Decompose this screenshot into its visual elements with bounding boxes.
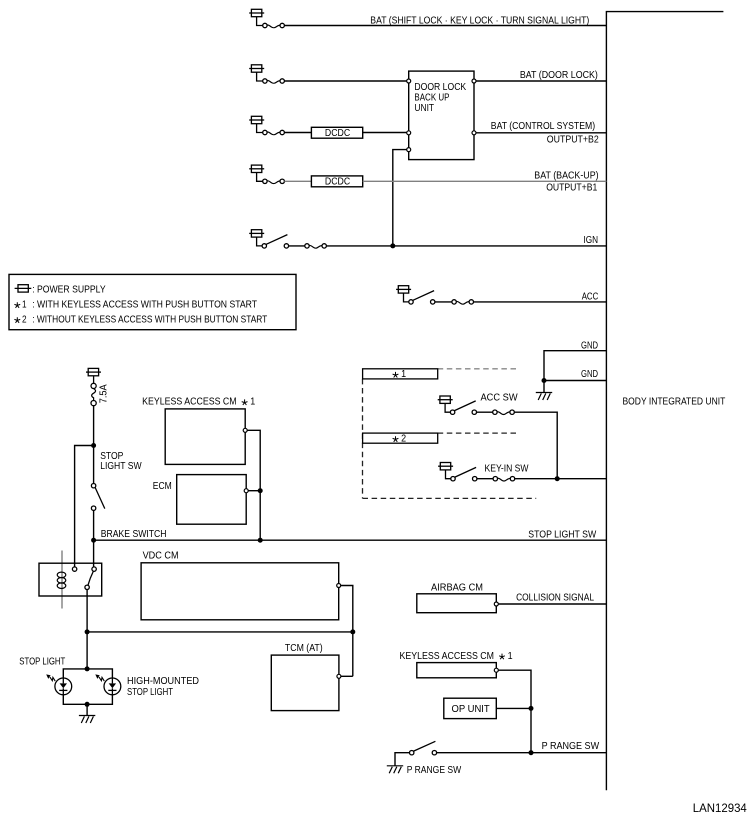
ACC switch contacts [409,300,474,304]
relay blade [88,571,93,585]
switch SW1 contacts [263,23,285,27]
svg-text:OP UNIT: OP UNIT [452,704,490,715]
stop light relay box [39,563,102,596]
switch SW3 contacts [263,130,285,134]
keyless access CM box (left) [165,409,245,465]
ACC SW wave [497,412,510,415]
svg-text:AIRBAG CM: AIRBAG CM [431,582,483,593]
wire to lamp ground [86,704,88,715]
power supply PS6 (ACC row) [396,286,411,302]
body integrated unit bus line [606,12,723,791]
junction relay-VDC row [85,629,90,634]
wire row3 switch to DCDC [284,132,311,134]
wire ECM pin to column [248,490,260,492]
svg-text:IGN: IGN [584,234,599,246]
svg-text:ACC: ACC [582,291,599,303]
switch SW2 wave [267,80,280,83]
legend box [9,274,296,329]
junction P range column [529,750,534,755]
relay contacts [72,567,96,590]
svg-text:: WITH KEYLESS ACCESS WITH PUS: : WITH KEYLESS ACCESS WITH PUSH BUTTON S… [32,299,257,311]
wire IGN middle [289,245,305,247]
airbag pin [494,602,498,606]
ground symbol G1 [536,393,552,401]
svg-text:7.5A: 7.5A [99,384,110,403]
legend star 1 [14,302,20,308]
ACC SW contacts [450,410,514,414]
junction IGN feed [390,243,395,248]
svg-text:HIGH-MOUNTED: HIGH-MOUNTED [127,676,199,687]
wire KEY-IN to bus [515,478,607,480]
switch IGN wave [309,245,322,248]
KEY-IN SW blade [455,467,476,477]
svg-text:2: 2 [401,434,406,445]
svg-text:KEYLESS ACCESS CM: KEYLESS ACCESS CM [142,397,237,408]
unit terminal pins [407,79,476,152]
dashed enclosure *2 top [438,432,519,434]
keyless CM pin [243,428,247,432]
tag box *2 [363,433,438,443]
star in tag 2 [393,436,399,442]
junction GND [542,378,547,383]
svg-text:1: 1 [22,299,27,311]
wire TCM pin to column [341,675,353,677]
ignition switch blade [266,235,287,245]
dashed enclosure *1 top [438,368,518,370]
svg-text:BAT (CONTROL SYSTEM): BAT (CONTROL SYSTEM) [491,120,595,132]
ECM box [177,475,247,525]
junction brake row left [91,538,96,543]
wire switch to brake row [93,510,95,569]
wire GND1 to bus [544,351,606,393]
wire keyless pin to ECM column [247,430,260,540]
junction key-in ACC column [555,476,560,481]
keyless access CM box (bottom) [417,663,497,678]
VDC CM box [141,563,339,620]
ground symbol G3 (P range) [387,766,403,774]
ACC SW blade [455,401,476,411]
DCDC converter box 2 [311,176,362,187]
svg-text:ACC SW: ACC SW [481,393,519,404]
svg-text:OUTPUT+B1: OUTPUT+B1 [546,181,597,193]
svg-text:KEY-IN SW: KEY-IN SW [485,464,529,475]
DCDC converter box 1 [311,127,362,138]
VDC pin [337,584,341,588]
switch SW2 contacts [263,79,285,83]
svg-text:STOP LIGHT SW: STOP LIGHT SW [528,528,596,540]
relay coil gray wire [61,551,63,609]
svg-text:STOP LIGHT: STOP LIGHT [127,687,173,698]
wire brake switch row to bus [94,539,607,541]
wire ACC middle [435,301,452,303]
P range switch contacts [410,751,437,755]
fuse F1 7.5A [91,383,96,405]
wire row2 left of unit [284,80,406,82]
svg-text:2: 2 [22,314,27,326]
P range switch ground lead [395,753,412,766]
legend power supply icon [15,285,32,292]
svg-text:1: 1 [401,369,406,380]
svg-text:ECM: ECM [153,481,172,492]
door lock back up unit text [414,82,466,114]
wire KEY-IN middle [477,478,493,480]
svg-text:BAT (SHIFT LOCK · KEY LOCK · T: BAT (SHIFT LOCK · KEY LOCK · TURN SIGNAL… [370,14,589,26]
wire row2 right of unit to bus [476,80,607,82]
wire branch left to relay contact [75,446,94,567]
dashed enclosure bottom [363,497,537,499]
svg-text:LAN12934: LAN12934 [693,803,748,815]
svg-text:GND: GND [581,368,598,380]
svg-text:TCM (AT): TCM (AT) [285,643,323,654]
relay coil [57,572,66,588]
svg-text:P RANGE SW: P RANGE SW [407,765,462,776]
wire keyless to P range column [498,670,531,753]
wire ACC SW middle [477,411,493,413]
power supply PS4 (BAT back-up row) [249,165,264,181]
star keyless bottom [499,654,505,660]
lamp bottom bar [63,695,112,705]
stop light switch contacts [91,484,95,511]
TCM box [271,655,339,711]
ground symbol G2 (lamps) [79,716,95,724]
wire row3 DCDC to unit [363,132,407,134]
svg-text:STOP LIGHT: STOP LIGHT [19,656,65,667]
IGN feed wire from unit pin [393,150,407,246]
switch ACC wave [456,301,469,304]
KEY-IN wave [498,478,511,481]
airbag CM box [417,594,497,613]
svg-text:1: 1 [508,651,513,662]
stop light switch blade [95,488,105,509]
switch SW3 wave [267,132,280,135]
power supply PS3 (BAT control system row) [249,116,264,132]
power supply PS7 (stop light feed) [86,368,101,383]
svg-text:BACK UP: BACK UP [414,92,449,103]
svg-text:UNIT: UNIT [414,103,434,114]
wire OP unit to column [496,707,531,709]
switch SW4 contacts [263,179,285,183]
svg-text:DCDC: DCDC [325,177,350,188]
svg-text:: WITHOUT KEYLESS ACCESS WITH: : WITHOUT KEYLESS ACCESS WITH PUSH BUTTO… [32,314,268,326]
legend star 2 [14,317,20,323]
wire relay to lamp junction [86,590,88,669]
power supply PS5 (IGN row) [249,230,264,246]
svg-text:DCDC: DCDC [325,128,350,139]
OP unit box [444,698,497,718]
junction ECM column [258,488,263,493]
wire ACC SW to key-in row [514,412,557,479]
svg-text:BAT (DOOR LOCK): BAT (DOOR LOCK) [520,69,598,81]
power supply PS1 (BAT shift lock row) [249,9,264,25]
wire row3 unit to bus [476,132,607,134]
dashed enclosure left [362,379,364,499]
stop light LED lamp [46,674,71,694]
TCM pin [337,674,341,678]
ACC switch blade [413,291,434,301]
door lock back up unit box U1 [409,71,474,160]
power supply PS2 (BAT door lock row) [249,65,264,81]
wire airbag to bus [498,603,606,605]
fuse F1 wave [92,389,96,401]
wire row1 to bus [284,25,606,27]
KEY-IN SW contacts [451,477,515,481]
star keyless left [242,399,248,405]
junction OP unit column [529,706,534,711]
svg-text:BRAKE SWITCH: BRAKE SWITCH [101,529,167,540]
junction lamp top [85,666,90,671]
wire GND2 to bus [544,380,606,382]
svg-text:1: 1 [250,397,255,408]
wire fuse down to junction [93,406,95,484]
wire row4 gray switch to DCDC [284,180,311,182]
svg-text:LIGHT SW: LIGHT SW [100,461,142,472]
power supply PS9 (KEY-IN SW) [438,463,453,479]
switch SW1 wave [267,25,280,28]
P range switch blade [414,741,436,751]
switch SW4 wave [267,181,280,184]
wire row4 gray DCDC to bus [363,180,607,182]
svg-text:COLLISION SIGNAL: COLLISION SIGNAL [516,592,594,604]
junction lamp bottom [85,702,90,707]
svg-text:BAT (BACK-UP): BAT (BACK-UP) [534,170,598,182]
power supply PS8 (ACC SW) [438,396,453,412]
wire VDC bottom row [87,631,353,633]
keyless bottom pin [494,668,498,672]
lamp top bar [63,669,112,678]
high mounted stop light LED lamp [95,674,121,694]
svg-text:KEYLESS ACCESS CM: KEYLESS ACCESS CM [400,651,495,662]
junction brake row ECM column [258,538,263,543]
svg-text:P RANGE SW: P RANGE SW [542,740,600,752]
svg-text:GND: GND [581,339,598,351]
junction VDC column [350,629,355,634]
svg-text:OUTPUT+B2: OUTPUT+B2 [547,134,599,146]
star in tag 1 [393,372,399,378]
ignition switch IGN contacts [262,244,326,248]
svg-text:VDC CM: VDC CM [143,551,179,562]
wire VDC pin to column [341,586,353,677]
wire ACC to bus [474,301,607,303]
ECM pin [244,489,248,493]
svg-text:: POWER SUPPLY: : POWER SUPPLY [32,283,105,295]
svg-text:BODY INTEGRATED UNIT: BODY INTEGRATED UNIT [623,396,726,408]
wire P range to bus [437,752,607,754]
wire IGN to bus [326,245,606,247]
junction stop light feed [91,443,96,448]
tag box *1 [363,369,438,379]
